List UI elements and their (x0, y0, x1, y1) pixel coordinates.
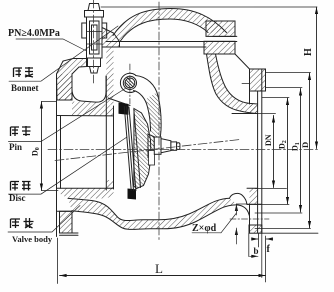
body flange corner line (235, 54, 250, 69)
leader valve body (8, 206, 80, 233)
bottom wall hatch (68, 198, 238, 229)
svg-text:PN≥4.0MPa: PN≥4.0MPa (8, 28, 60, 39)
rocker arm inner (134, 91, 151, 132)
inlet bore top line (57, 115, 114, 117)
body right wall hatch (207, 54, 258, 114)
pivot pin hatch (125, 78, 133, 88)
inlet upper wall band (72, 102, 114, 116)
hanzi valve-body (11, 218, 34, 228)
extension line top (H) (101, 6, 317, 8)
hanzi rocker (11, 126, 31, 136)
right flange hole top edge (250, 203, 262, 205)
bottom wall bolt boss hump (230, 193, 250, 204)
right flange back face (249, 69, 251, 233)
stem tip (177, 143, 180, 150)
bolt M1 hex nut (88, 4, 100, 11)
stem cylinder (171, 142, 177, 150)
outlet bore top line (232, 113, 258, 115)
right flange raised face line (261, 69, 263, 233)
dimension D2 (286, 98, 289, 204)
svg-text:Disc: Disc (9, 193, 26, 203)
dimension D0 left (40, 102, 58, 191)
disc plate lines (124, 107, 136, 191)
left flange face (56, 74, 58, 237)
right flange top tab (250, 69, 266, 91)
bottom wall inner curve (68, 198, 230, 220)
left flange raised face edge (60, 116, 62, 189)
body neck left column (106, 47, 113, 106)
left flange foot (60, 233, 79, 235)
right flange face line (257, 91, 259, 233)
body top flange right (204, 41, 235, 54)
hanzi disc (11, 182, 31, 191)
centerline vertical main (158, 2, 160, 242)
pivot pin inner circle (125, 78, 135, 88)
seat front line (105, 76, 107, 190)
dimension L (58, 236, 266, 284)
disc seal bottom (black) (128, 189, 137, 200)
disc hub to stem hatched (148, 134, 154, 158)
dimension DN (272, 116, 275, 188)
leader disc (8, 137, 127, 194)
centerline tilted disc axis (55, 140, 240, 161)
rocker arm outer (136, 76, 162, 148)
right flange hub hatch bottom (250, 188, 258, 204)
svg-text:L: L (155, 261, 163, 276)
rocker head ring (120, 73, 135, 92)
left flange tab top hatch (57, 74, 72, 100)
bonnet dome hatch (113, 9, 227, 42)
svg-text:D2: D2 (278, 140, 289, 149)
left flange tab top edge (57, 99, 72, 101)
disc back edge (134, 109, 141, 188)
svg-text:f: f (267, 244, 271, 255)
bolt tip (90, 67, 99, 74)
arm slot notch (149, 151, 155, 166)
bolt gland body (87, 17, 103, 58)
dimension b arrows (251, 237, 258, 258)
left flange bottom tab (60, 211, 73, 233)
inlet bottom wall band (61, 188, 114, 198)
bolt washer top (85, 11, 104, 18)
centerline flange bolt hole (230, 218, 269, 220)
Zxd leader (221, 213, 237, 233)
rocker arm band hatch (146, 93, 161, 149)
hanzi valve-cover (14, 67, 34, 77)
dimension D (308, 73, 311, 228)
bolt side lug left (82, 23, 87, 38)
svg-text:Bonnet: Bonnet (11, 83, 39, 93)
bonnet boss shoulder left (57, 59, 87, 101)
svg-text:Pin: Pin (9, 142, 22, 152)
body right wall inner curve (207, 54, 258, 114)
disc seal top (black) (119, 103, 129, 115)
throat lip line (108, 98, 130, 106)
inlet bore bottom line (57, 187, 114, 189)
centerline pivot pin (129, 64, 131, 104)
disc backing hatched (134, 109, 151, 189)
bonnet joint gasket line (106, 36, 237, 41)
seat face line (113, 106, 115, 189)
left flange bottom hole edge (57, 210, 72, 212)
right flange hub hatch top (250, 104, 258, 114)
seat hatch bottom (106, 180, 113, 190)
leader bonnet (9, 26, 118, 81)
stem nut (161, 139, 171, 153)
bonnet underside line (120, 46, 207, 48)
bonnet dome inner arc (120, 19, 208, 42)
body cavity U left (72, 74, 106, 102)
body lug line right (242, 83, 250, 85)
leader pin (8, 88, 126, 142)
leader PN (16, 39, 87, 51)
right flange bottom hatch (249, 225, 262, 233)
bonnet left boss (102, 28, 120, 48)
dimension b f ext lines (249, 233, 262, 277)
bottom wall outer curve (72, 205, 250, 229)
bolt side lug right (102, 23, 107, 38)
body right wall outer curve (216, 54, 258, 104)
centerline horizontal pipe axis (48, 149, 320, 151)
centerline bolt axis (93, 0, 95, 84)
pivot pin outer circle (123, 76, 136, 89)
dimension Zxd arrows (235, 204, 238, 235)
svg-text:D: D (300, 142, 310, 148)
dimension f arrow (266, 237, 273, 240)
svg-text:H: H (303, 48, 314, 56)
svg-text:D0: D0 (31, 147, 42, 156)
svg-text:Valve body: Valve body (12, 234, 53, 244)
bonnet flange right (206, 21, 235, 36)
stem washer (154, 137, 161, 154)
svg-text:DN: DN (264, 134, 273, 146)
bonnet dome outer arc (113, 9, 227, 36)
svg-text:b: b (254, 246, 259, 256)
outlet bore bottom line (247, 187, 258, 189)
dimension D1 (299, 89, 302, 213)
dimension H (315, 7, 318, 149)
extension lines right side (247, 73, 318, 234)
bolt lower washer (88, 58, 101, 67)
svg-text:Z×φd: Z×φd (192, 223, 217, 234)
left wall line (71, 74, 73, 100)
